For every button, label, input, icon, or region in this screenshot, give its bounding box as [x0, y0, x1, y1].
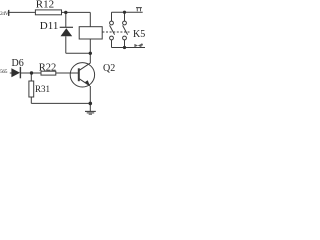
- svg-text:R22: R22: [39, 63, 57, 74]
- svg-text:D6: D6: [12, 58, 24, 69]
- svg-text:24V: 24V: [0, 11, 9, 17]
- svg-text:R12: R12: [36, 0, 54, 10]
- svg-text:565: 565: [0, 69, 8, 75]
- svg-text:R31: R31: [35, 84, 50, 94]
- svg-text:D11: D11: [40, 20, 59, 32]
- svg-text:K5: K5: [133, 29, 145, 40]
- svg-text:Q2: Q2: [103, 63, 115, 74]
